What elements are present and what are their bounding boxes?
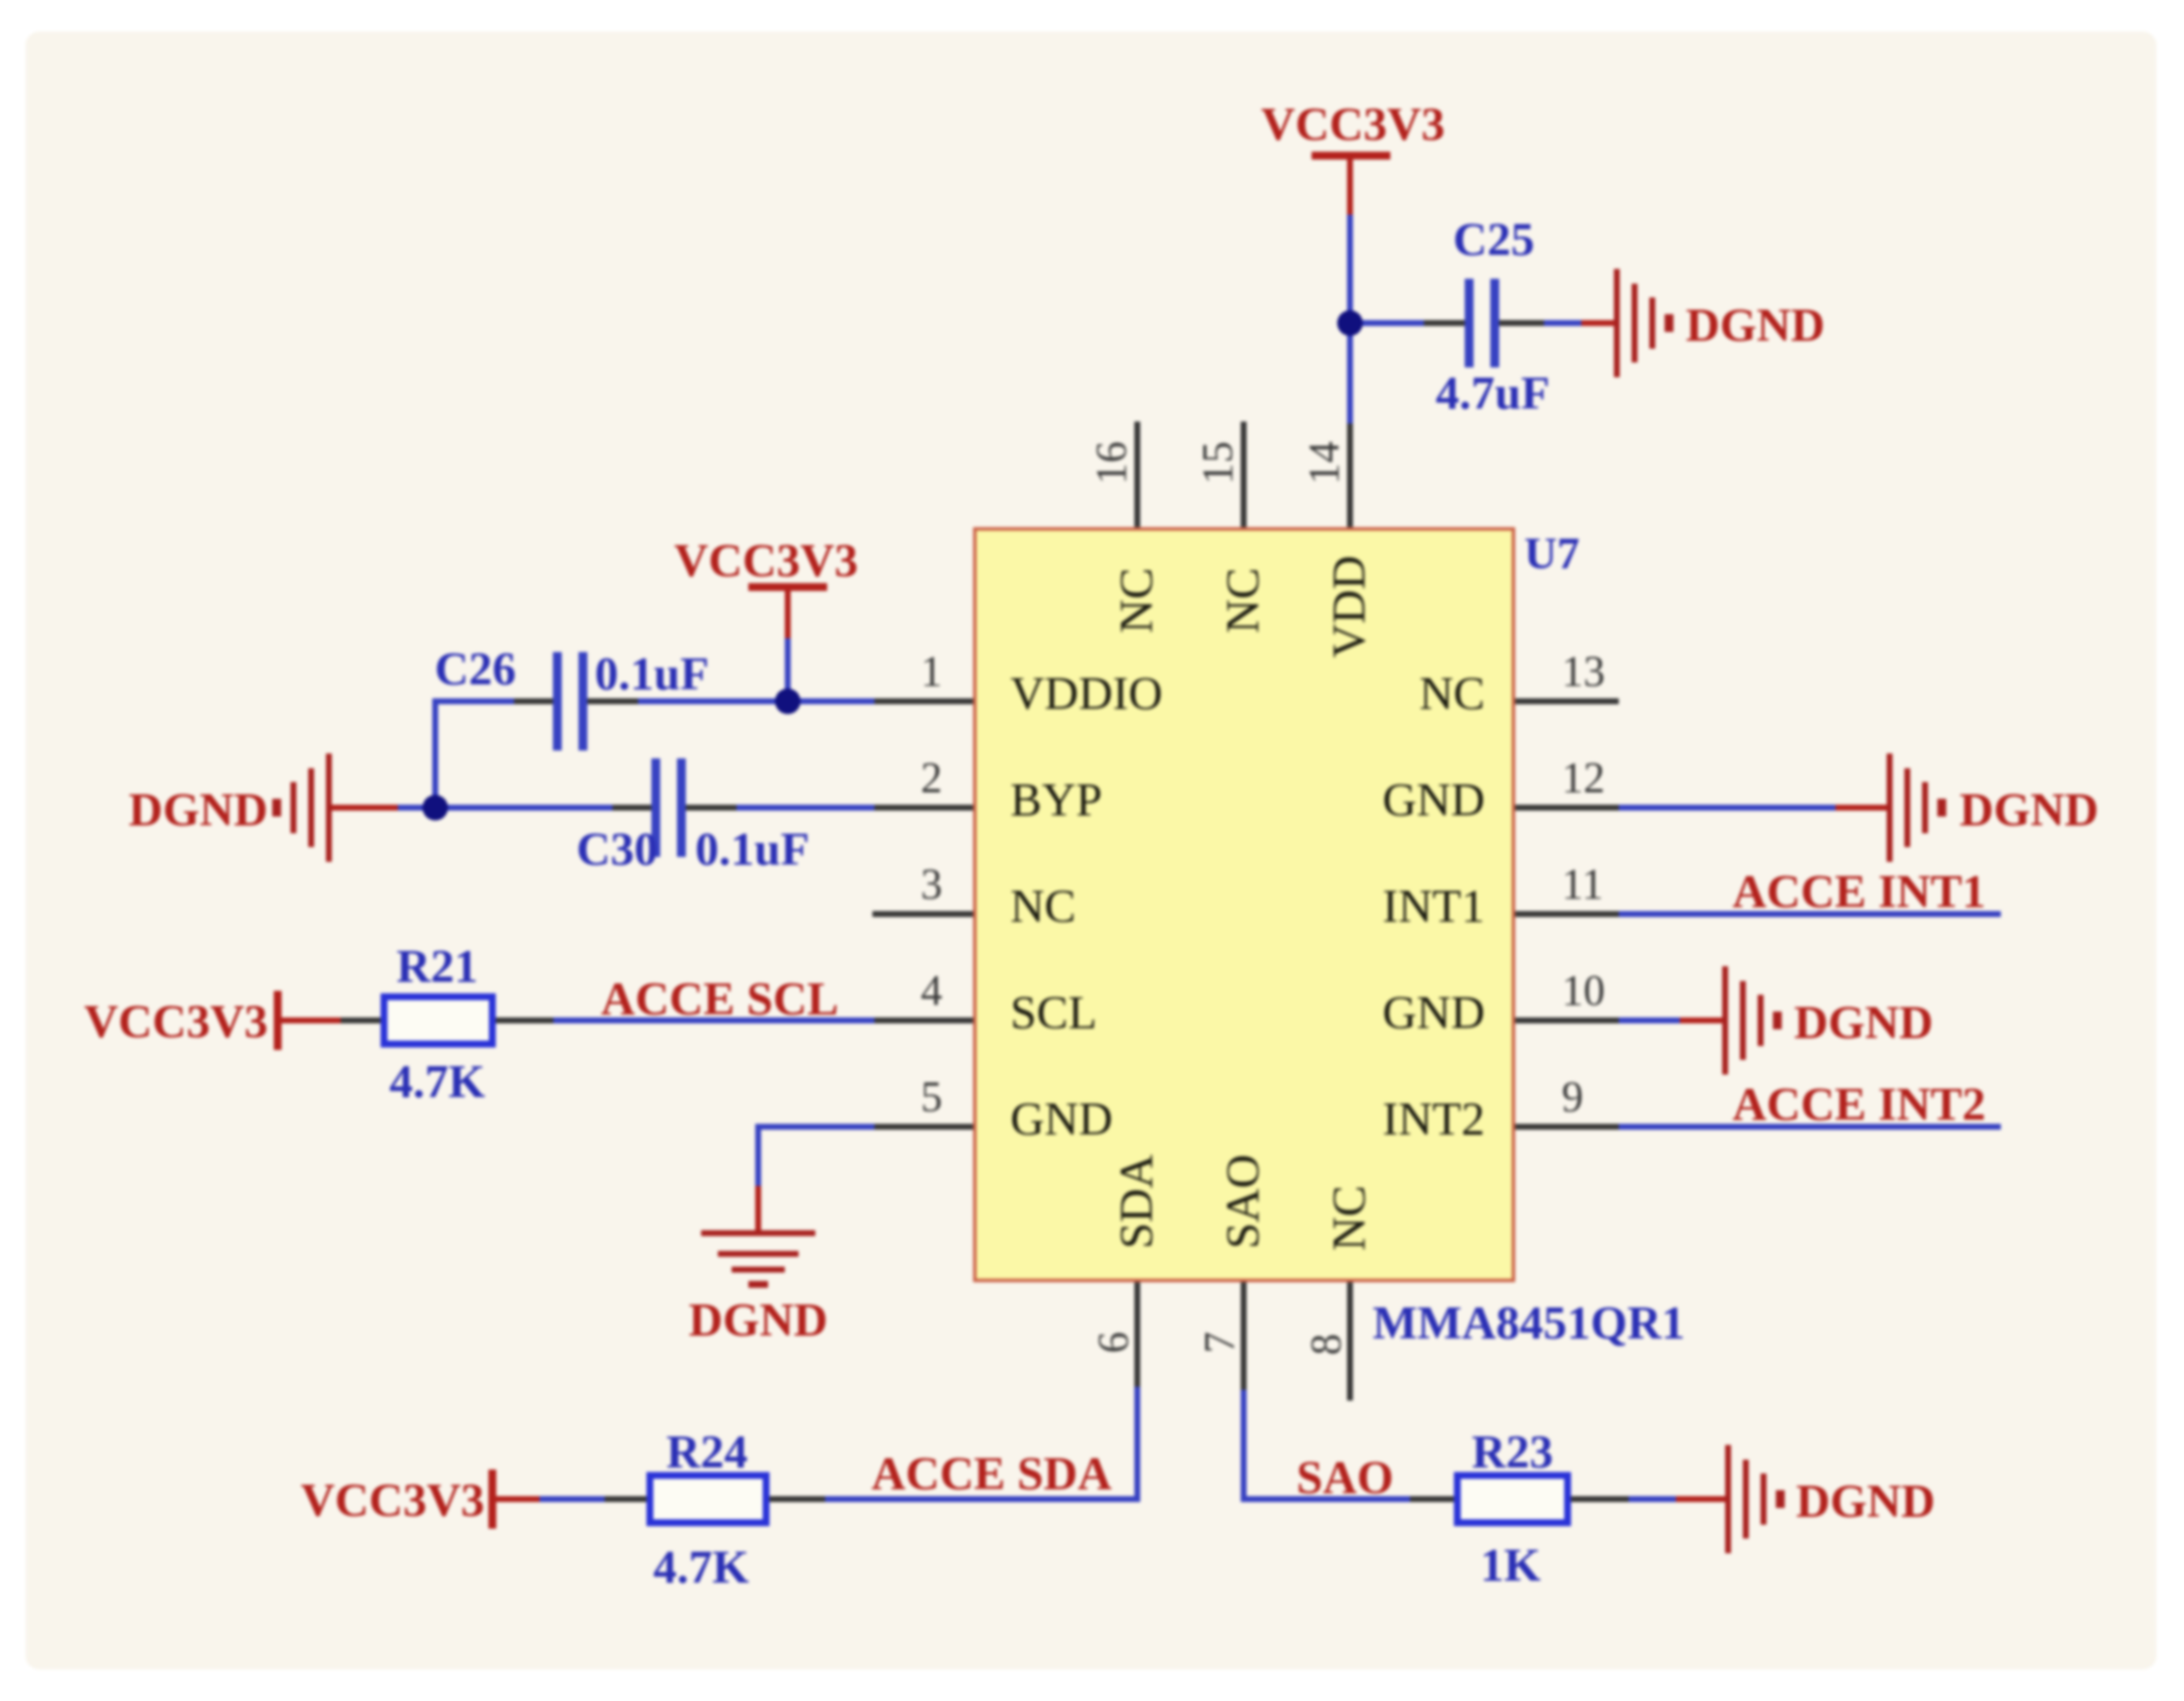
svg-text:VDD: VDD [1323,556,1376,658]
svg-text:VCC3V3: VCC3V3 [674,535,859,587]
svg-text:VCC3V3: VCC3V3 [84,996,268,1048]
svg-text:ACCE INT2: ACCE INT2 [1732,1079,1985,1131]
svg-text:VCC3V3: VCC3V3 [1261,98,1445,151]
svg-text:NC: NC [1419,668,1485,720]
svg-text:NC: NC [1217,567,1269,633]
svg-text:ACCE SDA: ACCE SDA [871,1448,1112,1500]
svg-text:4.7K: 4.7K [389,1056,484,1108]
svg-text:13: 13 [1562,647,1605,695]
svg-text:GND: GND [1382,774,1485,826]
svg-text:0.1uF: 0.1uF [695,823,809,876]
svg-text:11: 11 [1562,860,1603,908]
svg-text:SAO: SAO [1297,1452,1394,1504]
svg-text:16: 16 [1087,441,1135,485]
svg-text:15: 15 [1193,441,1242,485]
svg-text:C26: C26 [434,643,516,695]
svg-text:SCL: SCL [1010,987,1097,1039]
svg-text:U7: U7 [1524,528,1579,578]
svg-text:R23: R23 [1472,1426,1554,1478]
svg-text:5: 5 [921,1073,942,1121]
svg-text:C25: C25 [1453,214,1535,266]
svg-text:NC: NC [1323,1185,1376,1251]
svg-text:INT2: INT2 [1382,1093,1485,1145]
svg-text:C30: C30 [576,823,658,876]
svg-text:0.1uF: 0.1uF [595,648,709,700]
svg-text:INT1: INT1 [1382,881,1485,933]
svg-text:SAO: SAO [1217,1154,1269,1249]
svg-text:ACCE INT1: ACCE INT1 [1732,866,1985,918]
svg-text:4.7uF: 4.7uF [1436,367,1550,420]
svg-text:1: 1 [921,647,942,695]
svg-text:14: 14 [1300,441,1348,485]
svg-text:VDDIO: VDDIO [1010,668,1163,720]
svg-text:4.7K: 4.7K [653,1541,748,1594]
svg-text:GND: GND [1010,1093,1113,1145]
svg-text:NC: NC [1111,567,1163,633]
svg-text:12: 12 [1562,753,1605,802]
svg-text:2: 2 [921,753,942,802]
svg-text:MMA8451QR1: MMA8451QR1 [1373,1297,1685,1349]
svg-text:BYP: BYP [1010,774,1102,826]
svg-text:DGND: DGND [1959,784,2098,836]
svg-text:8: 8 [1302,1334,1350,1355]
svg-text:4: 4 [921,966,942,1014]
svg-text:VCC3V3: VCC3V3 [300,1474,484,1527]
svg-text:DGND: DGND [1686,299,1825,352]
svg-text:DGND: DGND [129,784,268,836]
svg-text:7: 7 [1195,1332,1244,1353]
svg-text:6: 6 [1089,1332,1137,1353]
svg-text:R24: R24 [667,1426,748,1478]
svg-text:1K: 1K [1480,1539,1540,1592]
svg-text:GND: GND [1382,987,1485,1039]
svg-text:ACCE SCL: ACCE SCL [601,973,838,1025]
svg-text:NC: NC [1010,881,1076,933]
svg-text:10: 10 [1562,966,1605,1014]
svg-text:DGND: DGND [1796,1475,1935,1528]
svg-text:9: 9 [1562,1073,1583,1121]
svg-text:3: 3 [921,860,942,908]
svg-text:R21: R21 [397,941,479,993]
svg-text:DGND: DGND [688,1294,827,1346]
svg-text:SDA: SDA [1111,1154,1163,1249]
svg-text:DGND: DGND [1794,997,1933,1049]
